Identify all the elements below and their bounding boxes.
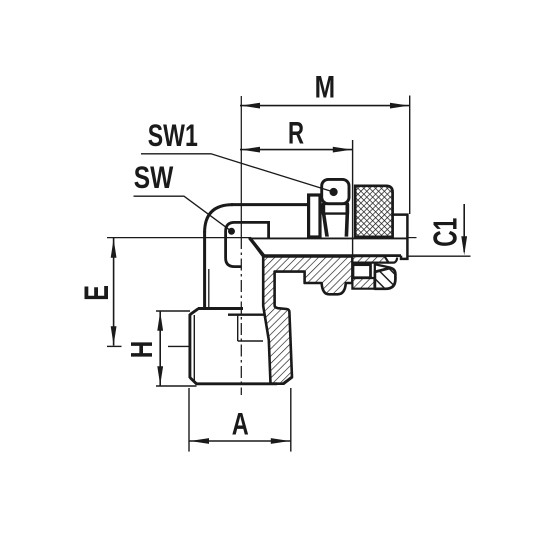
wire: A right arrow: [271, 438, 290, 444]
svg-text:H: H: [124, 341, 159, 359]
region: ring lobe heavy hatch: [375, 268, 396, 289]
wire: A left extension: [188, 388, 190, 452]
wire: R right arrow: [333, 147, 352, 153]
wire: bore chamfer diagonal: [250, 238, 265, 256]
wire: A left arrow: [190, 438, 209, 444]
wire: stud bottom-right chamfer: [283, 377, 292, 384]
svg-text:E: E: [78, 285, 116, 301]
wire: R left arrow: [241, 147, 260, 153]
wire: nut back flange: [309, 195, 320, 237]
wire: neck inner thin line: [208, 269, 210, 307]
wire: SW leader: [134, 196, 232, 231]
wire: stud left edge: [188, 314, 191, 378]
wire: knurled sleeve: [355, 186, 392, 237]
node: vertical centerline: [240, 96, 242, 237]
wire: stud bore edge: [237, 315, 239, 341]
wire: M right extension line: [409, 96, 411, 215]
node: horizontal centerline: [107, 237, 251, 239]
svg-text:C1: C1: [426, 218, 463, 247]
wire: R right extension line / tube end: [352, 140, 354, 256]
wire: M left arrow: [241, 103, 260, 109]
wire: H top arrow: [157, 312, 163, 331]
wire: nut dome (SW1): [322, 179, 349, 203]
wire: tube bottom edge: [263, 254, 402, 257]
svg-text:A: A: [232, 405, 249, 441]
wire: stud bottom edge: [196, 382, 278, 385]
wire: nut right leg: [345, 214, 350, 237]
wire: nut waist right bar: [346, 204, 350, 214]
wire: nut corner tab line: [389, 258, 398, 263]
node: SW1 dot: [330, 188, 338, 196]
wire: body hex (SW) inner profile: [226, 222, 269, 266]
wire: H bottom arrow: [157, 366, 163, 385]
wire: M dimension line: [240, 105, 410, 107]
wire: nut waist band bottom line: [322, 212, 349, 214]
wire: stud top-left chamfer: [190, 309, 199, 315]
wire: stud seat line sectioned: [228, 314, 264, 316]
wire: C1 arrow line: [463, 204, 465, 252]
wire: M right arrow: [390, 103, 409, 109]
wire: nut left leg: [322, 214, 329, 237]
wire: stud bore step: [238, 340, 263, 342]
wire: C1 extension line: [409, 255, 471, 257]
wire: stud thread inner line: [193, 315, 195, 382]
svg-text:SW: SW: [134, 159, 174, 195]
node: horizontal centerline right stub: [408, 237, 417, 239]
wire: nut waist left bar: [322, 204, 326, 214]
wire: A right extension: [290, 388, 292, 452]
wire: stud top edge: [198, 307, 243, 310]
region: nut section strip: [352, 256, 388, 262]
wire: E bottom extension tick: [107, 345, 122, 347]
wire: SW1 leader: [141, 154, 334, 192]
wire: H dimension line: [159, 311, 161, 386]
svg-text:R: R: [288, 115, 304, 151]
wire: body top edge: [231, 203, 309, 206]
region: nut section lower wall: [352, 278, 374, 289]
wire: tube stub outline: [393, 215, 408, 259]
wire: E body-side extension: [168, 345, 190, 347]
svg-text:M: M: [315, 69, 336, 105]
wire: nut waist band top line: [322, 203, 349, 205]
wire: R dimension line: [240, 149, 352, 151]
wire: body outer corner arc: [205, 205, 233, 233]
wire: C1 arrow: [461, 236, 467, 255]
wire: H top extension: [156, 310, 190, 312]
wire: E dimension line: [113, 238, 115, 346]
svg-text:SW1: SW1: [148, 117, 198, 153]
wire: A dimension line: [189, 440, 291, 442]
wire: stud bottom-left chamfer: [190, 378, 197, 384]
wire: body left edge: [203, 231, 206, 308]
wire: E top arrow: [111, 239, 117, 258]
wire: H bottom extension: [156, 385, 197, 387]
region: cutting ring tip white wedge: [375, 264, 391, 271]
region: body section hatched: [250, 239, 352, 384]
region: ferrule cavity white: [353, 265, 371, 278]
node: vertical centerline lower part: [240, 237, 242, 395]
node: SW dot: [228, 228, 235, 235]
wire: E bottom arrow: [111, 326, 117, 345]
wire: tube hidden top edge under nut: [250, 237, 408, 239]
